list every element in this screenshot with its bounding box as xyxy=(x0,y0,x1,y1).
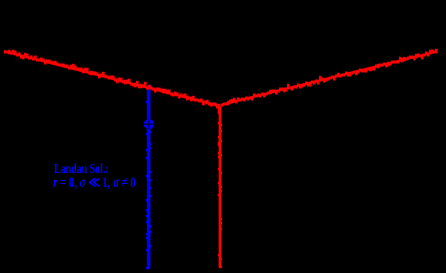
blue vertical line (Landau solution) xyxy=(146,85,151,269)
red curve: right ascending branch xyxy=(221,49,438,107)
red curve: left descending branch xyxy=(4,50,221,109)
red vertical asymptote line xyxy=(218,106,222,268)
text label line 2: r = 0, sigma much-less-than 1, sigma not-equal 0 xyxy=(53,176,136,191)
text label line 1: Landau Sol.: xyxy=(54,163,109,177)
blue circle marker on blue line xyxy=(144,119,155,129)
